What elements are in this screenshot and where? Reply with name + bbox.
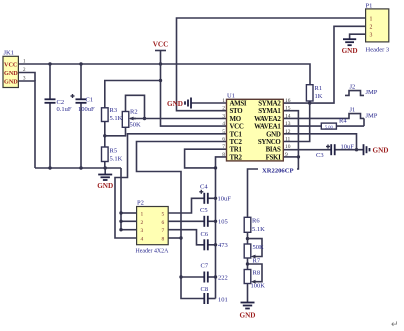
potentiometer R8 <box>244 258 265 290</box>
svg-text:R4: R4 <box>339 118 347 125</box>
svg-text:GND: GND <box>240 312 256 320</box>
svg-text:TR2: TR2 <box>230 154 243 161</box>
svg-text:4: 4 <box>141 237 144 243</box>
node bus C4 <box>214 197 217 200</box>
node TC2 C7 <box>179 275 182 278</box>
ground below P1 <box>342 39 358 55</box>
svg-text:P2: P2 <box>137 200 144 207</box>
svg-text:C4: C4 <box>200 184 208 191</box>
svg-text:C1: C1 <box>86 97 94 104</box>
wire R3 top rail <box>105 81 161 108</box>
capacitor C5 <box>200 207 228 227</box>
capacitor C2 <box>45 99 72 113</box>
power VCC symbol <box>153 41 169 65</box>
svg-text:11: 11 <box>285 137 291 143</box>
svg-text:C8: C8 <box>201 286 209 293</box>
node R1 bottom <box>308 101 311 104</box>
wire U1 pin1 AMSI gnd stub <box>191 102 227 104</box>
svg-text:GND: GND <box>373 147 389 155</box>
wire C1 top lead <box>80 64 82 99</box>
svg-text:VCC: VCC <box>153 41 169 49</box>
wire U1 pin10 BIAS to C3 left <box>283 149 331 151</box>
svg-text:C2: C2 <box>57 99 65 106</box>
jumper J2 <box>345 84 378 97</box>
node pin9 FSKI join <box>297 155 300 158</box>
wire R4 right to J1 <box>336 125 364 127</box>
wire C7 left lead <box>181 276 204 278</box>
svg-text:10uF: 10uF <box>218 196 232 203</box>
wire ground rail bottom-left <box>35 167 121 169</box>
svg-text:1: 1 <box>141 212 144 218</box>
wire P2 pin8 stub <box>168 237 181 239</box>
svg-text:GND: GND <box>4 79 18 86</box>
svg-text:Header 4X2A: Header 4X2A <box>136 249 170 255</box>
resistor R1 <box>306 85 322 101</box>
capacitor C6 <box>201 231 228 250</box>
svg-text:GND: GND <box>266 131 281 138</box>
wire P1 pin1 to U1 pin2 STO <box>177 18 366 111</box>
wire R1 bottom to P1 pin2 <box>310 26 366 103</box>
resistor R4 horizontal <box>321 118 347 130</box>
svg-text:VCC: VCC <box>4 62 17 69</box>
wire U1 pin5 TC1 to P2 pin4 <box>115 134 227 238</box>
node R2 loop wiper <box>143 117 146 120</box>
wire C2 top lead <box>49 64 51 99</box>
connector P2 <box>136 200 170 255</box>
svg-text:16: 16 <box>285 98 291 104</box>
svg-text:1K: 1K <box>315 93 323 100</box>
svg-text:SYNCO: SYNCO <box>258 139 282 146</box>
svg-text:5.1K: 5.1K <box>252 226 265 233</box>
ground sideways at U1 pin1 <box>167 98 191 109</box>
wire R2 wiper to U1 pin3 MO <box>130 118 227 120</box>
wire U1 pin14 to J1 left <box>283 117 345 119</box>
ground below R8 chain <box>240 284 256 320</box>
node P2 pin3 <box>119 228 122 231</box>
svg-text:WAVEA1: WAVEA1 <box>254 124 281 131</box>
svg-text:STO: STO <box>230 108 244 115</box>
wire J1 right down to R4 <box>363 118 365 126</box>
svg-text:100uF: 100uF <box>78 106 95 113</box>
capacitor C3 polarized <box>316 144 354 160</box>
svg-text:JMP: JMP <box>366 113 378 120</box>
capacitor C8 <box>201 286 228 304</box>
wire U1 pin15 down to R6 chain <box>248 111 299 218</box>
wire U1 pin9 FSKI stub <box>283 156 298 158</box>
resistor R5 <box>102 147 123 163</box>
svg-text:TR1: TR1 <box>230 147 243 154</box>
resistor R6 <box>244 217 265 233</box>
svg-text:P1: P1 <box>366 3 373 10</box>
svg-text:R3: R3 <box>110 107 118 114</box>
wire C5 left to P2 pin6 <box>168 220 204 222</box>
node P2 pin1 <box>119 211 122 214</box>
svg-text:15: 15 <box>285 106 291 112</box>
connector JK1 <box>3 50 26 88</box>
svg-text:12: 12 <box>285 129 291 135</box>
svg-text:R8: R8 <box>253 270 261 277</box>
svg-text:10: 10 <box>285 144 291 150</box>
svg-text:Header 3: Header 3 <box>366 47 390 54</box>
wire R5 bottom to gnd rail <box>104 162 106 169</box>
svg-text:↵: ↵ <box>391 319 399 329</box>
svg-text:1: 1 <box>222 98 225 104</box>
node gnd C1 <box>79 166 82 169</box>
jumper J1 <box>345 107 378 120</box>
svg-text:9: 9 <box>285 152 288 158</box>
node VCC tap symbol <box>159 62 162 65</box>
wire P1 pin3 to gnd <box>350 34 366 39</box>
svg-text:JMP: JMP <box>366 89 378 96</box>
svg-text:13: 13 <box>285 121 291 127</box>
capacitor C1 polarized <box>71 94 96 113</box>
svg-text:AMSI: AMSI <box>230 101 247 108</box>
svg-text:TC2: TC2 <box>230 139 243 146</box>
wire P2 pin1 stub <box>121 212 137 214</box>
svg-text:0.1uF: 0.1uF <box>57 106 72 113</box>
wire U1 pin16 to R1 bottom <box>283 102 309 104</box>
svg-text:U1: U1 <box>227 93 235 100</box>
wire C2 bottom lead <box>49 103 51 168</box>
potentiometer R2 <box>122 109 141 129</box>
svg-text:R1: R1 <box>315 85 323 92</box>
ground bottom-left below R5 <box>97 168 113 190</box>
svg-text:GND: GND <box>4 70 18 77</box>
svg-text:7: 7 <box>222 144 225 150</box>
svg-text:VCC: VCC <box>230 124 244 131</box>
svg-text:473: 473 <box>218 242 228 249</box>
wire U1 pin6 TC2 to C7 C8 and P2 pin8 <box>137 142 227 299</box>
svg-text:C7: C7 <box>201 263 209 270</box>
wire P2 pin3 stub <box>121 229 137 231</box>
svg-text:J2: J2 <box>350 84 356 91</box>
wire U1 pin8 TR2 and cap right bus <box>216 157 227 299</box>
node C3 gnd junction <box>355 148 358 151</box>
svg-text:XR2206CP: XR2206CP <box>262 167 294 174</box>
svg-text:5: 5 <box>222 129 225 135</box>
svg-text:3: 3 <box>141 228 144 234</box>
IC U1 XR2206CP <box>222 93 297 175</box>
svg-text:GND: GND <box>342 47 358 55</box>
wire gnd drop to P2 pins 1 2 3 <box>120 168 122 230</box>
svg-text:GND: GND <box>97 182 113 190</box>
wire U1 pin12 GND to C3 junction <box>283 134 356 150</box>
svg-text:8: 8 <box>162 237 165 243</box>
svg-text:5.1K: 5.1K <box>110 115 123 122</box>
wire U1 pin13 to R4 left <box>283 125 321 127</box>
node TC2 P2 pin8 <box>179 236 182 239</box>
wire JK1 gnd pins join <box>18 73 35 82</box>
node R3 R5 junction <box>103 134 106 137</box>
node VCC tap C1 <box>79 62 82 65</box>
svg-text:TC1: TC1 <box>230 131 243 138</box>
svg-text:100K: 100K <box>251 283 266 290</box>
svg-text:R2: R2 <box>130 109 138 116</box>
svg-text:C6: C6 <box>201 231 209 238</box>
wire C4 left to P2 pin5 <box>168 198 204 213</box>
svg-text:7: 7 <box>162 228 165 234</box>
svg-text:C5: C5 <box>200 207 208 214</box>
capacitor C4 polarized <box>199 184 231 204</box>
svg-text:2: 2 <box>222 106 225 112</box>
svg-text:2: 2 <box>141 220 144 226</box>
svg-text:4: 4 <box>222 121 225 127</box>
svg-text:R6: R6 <box>252 218 260 225</box>
wire R2 top loop to wiper <box>126 95 145 118</box>
wire R3 bottom to R5 top junction <box>104 122 106 148</box>
svg-text:5: 5 <box>162 212 165 218</box>
node VCC tap C2 <box>48 62 51 65</box>
svg-text:GND: GND <box>167 100 183 108</box>
svg-text:10uF: 10uF <box>341 144 355 151</box>
wire C8 right lead <box>208 298 216 300</box>
node gnd R5 <box>104 166 107 169</box>
resistor R3 <box>102 107 123 122</box>
svg-text:SYMA2: SYMA2 <box>258 101 281 108</box>
node P2 pin2 <box>119 220 122 223</box>
node bus TR1 <box>214 166 217 169</box>
wire C7 right lead <box>208 276 216 278</box>
wire C6 left to P2 pin7 <box>168 230 204 245</box>
wire U1 pin7 TR1 to cap bus <box>185 149 227 168</box>
svg-text:BIAS: BIAS <box>266 147 281 154</box>
wire VCC rail from JK1 pin1 to R1 top <box>18 64 310 85</box>
node bus C7 <box>214 275 217 278</box>
svg-text:50K: 50K <box>130 122 142 129</box>
svg-text:6: 6 <box>162 220 165 226</box>
wire C3 right to gnd junction <box>335 149 364 151</box>
node bus C5 <box>214 220 217 223</box>
svg-text:6: 6 <box>222 137 225 143</box>
capacitor C7 <box>201 263 228 283</box>
wire R2 bottom to junction <box>105 127 126 136</box>
wire C5 right lead <box>208 220 216 222</box>
svg-text:3: 3 <box>222 113 225 119</box>
svg-text:101: 101 <box>218 297 228 304</box>
node VCC feed to R3 rail <box>159 79 162 82</box>
svg-text:105: 105 <box>218 219 228 226</box>
svg-text:WAVEA2: WAVEA2 <box>254 116 281 123</box>
wire P2 pin2 stub <box>121 220 137 222</box>
wire C6 right lead <box>208 244 216 246</box>
svg-text:222: 222 <box>218 275 228 282</box>
svg-text:C3: C3 <box>316 152 324 159</box>
svg-text:1: 1 <box>370 17 373 23</box>
node gnd C2 <box>48 166 51 169</box>
ground sideways at C3 <box>364 144 389 155</box>
svg-text:SYMA1: SYMA1 <box>258 108 281 115</box>
svg-text:8: 8 <box>222 152 225 158</box>
svg-text:J1: J1 <box>350 107 356 114</box>
potentiometer R7 <box>244 232 264 264</box>
svg-text:3: 3 <box>370 33 373 39</box>
wire C1 bottom lead <box>80 103 82 168</box>
svg-text:5.00: 5.00 <box>325 124 334 129</box>
svg-text:2: 2 <box>370 25 373 31</box>
svg-text:FSKI: FSKI <box>266 154 282 161</box>
wire VCC feed down to U1 pin4 <box>161 64 227 126</box>
connector P1 <box>366 3 390 54</box>
svg-text:14: 14 <box>285 113 291 119</box>
svg-text:R5: R5 <box>110 148 118 155</box>
svg-text:50K: 50K <box>253 244 265 251</box>
svg-text:JK1: JK1 <box>4 50 14 57</box>
wire R1 bottom to U1 pin11 SYNCO <box>283 103 309 141</box>
wire C4 right lead <box>208 197 216 199</box>
node bus C6 <box>214 243 217 246</box>
svg-text:MO: MO <box>230 116 242 123</box>
svg-text:5.1K: 5.1K <box>110 156 123 163</box>
